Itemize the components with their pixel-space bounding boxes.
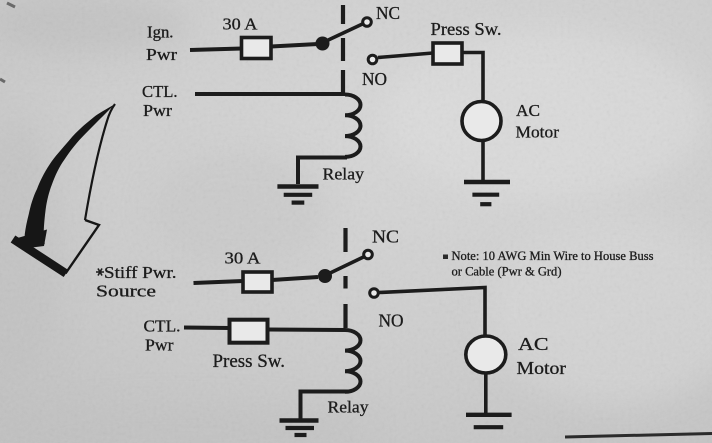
AC motor M1 (top) bbox=[462, 102, 501, 141]
ground symbol (bottom relay coil) bbox=[280, 421, 319, 436]
fuse F2 (30 A, bottom) bbox=[243, 272, 272, 292]
svg-text:Stiff Pwr.: Stiff Pwr. bbox=[104, 263, 177, 282]
svg-text:Pwr: Pwr bbox=[145, 336, 174, 355]
wire: AC motor to ground (bottom) bbox=[484, 373, 488, 417]
relay K1 switch lever (top) bbox=[324, 24, 364, 43]
wire: NO contact to press switch bbox=[378, 53, 433, 58]
label CTL. Pwr (top net) bbox=[142, 82, 178, 120]
svg-text:NO: NO bbox=[379, 311, 404, 331]
wire: relay coil to ground (top) bbox=[298, 158, 347, 185]
svg-text:Press Sw.: Press Sw. bbox=[431, 19, 502, 39]
label AC Motor (top) bbox=[516, 101, 560, 142]
wire: fuse to relay common (bottom) bbox=[272, 277, 318, 280]
fuse F1 (30 A, top) bbox=[242, 38, 272, 59]
wire: CTL. Pwr to press switch (bottom) bbox=[184, 326, 230, 331]
junction: relay common contact (bottom, filled dot) bbox=[318, 269, 332, 283]
wire: fuse to relay common bbox=[271, 44, 318, 47]
relay K2 NO contact terminal (bottom) bbox=[370, 289, 379, 298]
label AC Motor (bottom) bbox=[517, 334, 567, 378]
svg-text:or Cable (Pwr & Grd): or Cable (Pwr & Grd) bbox=[452, 265, 562, 279]
svg-text:Motor: Motor bbox=[516, 123, 560, 142]
svg-text:Relay: Relay bbox=[328, 398, 370, 417]
wire: NO contact to AC motor (bottom) bbox=[379, 288, 485, 338]
wire: CTL. Pwr to relay coil (top) bbox=[195, 92, 345, 96]
label CTL. Pwr (bottom net) bbox=[144, 317, 181, 355]
svg-text:AC: AC bbox=[516, 101, 540, 120]
ground symbol (bottom motor) bbox=[466, 415, 512, 427]
wire: Stiff Pwr. Source to fuse (bottom) bbox=[194, 281, 244, 283]
wire: press switch to relay coil (bottom) bbox=[268, 328, 346, 333]
wire: Ign. Pwr to fuse bbox=[190, 49, 242, 51]
note bullet bbox=[443, 255, 448, 260]
svg-text:NC: NC bbox=[376, 3, 400, 23]
svg-text:30 A: 30 A bbox=[223, 15, 259, 34]
press switch S1 (top) bbox=[433, 43, 462, 64]
wire: relay coil to ground (bottom) bbox=[301, 392, 350, 420]
svg-text:Pwr: Pwr bbox=[143, 101, 172, 120]
relay K1 actuator dashed link (top) bbox=[341, 5, 345, 93]
wire: AC motor to ground (top) bbox=[481, 141, 485, 183]
svg-text:CTL.: CTL. bbox=[144, 317, 181, 336]
note text: 10 AWG Min Wire bbox=[452, 249, 654, 279]
svg-text:Source: Source bbox=[96, 282, 156, 301]
svg-text:Note: 10 AWG Min Wire to Hous: Note: 10 AWG Min Wire to House Buss bbox=[452, 249, 654, 263]
svg-text:Motor: Motor bbox=[517, 358, 567, 378]
svg-text:30 A: 30 A bbox=[225, 249, 262, 268]
wire: press switch to AC motor bbox=[462, 53, 483, 103]
label *Stiff Pwr. Source (net name) bbox=[96, 263, 177, 301]
svg-text:AC: AC bbox=[518, 334, 549, 354]
relay K1 NO contact terminal (top) bbox=[368, 55, 377, 64]
AC motor M2 (bottom) bbox=[466, 336, 506, 373]
svg-text:Pwr: Pwr bbox=[146, 45, 177, 64]
relay K2 coil (bottom) bbox=[345, 330, 361, 392]
press switch S2 (bottom) bbox=[230, 320, 268, 343]
label Ign. Pwr (net name) bbox=[146, 23, 177, 65]
svg-text:NO: NO bbox=[362, 69, 387, 89]
svg-text:Ign.: Ign. bbox=[147, 23, 174, 42]
relay K2 actuator dashed link (bottom) bbox=[343, 228, 347, 328]
ground symbol (top motor) bbox=[464, 182, 510, 204]
relay K2 NC contact terminal (bottom) bbox=[364, 250, 373, 259]
svg-text:Press Sw.: Press Sw. bbox=[213, 351, 286, 372]
junction: relay common contact (top, filled dot) bbox=[316, 37, 330, 51]
relay K2 switch lever (bottom) bbox=[327, 257, 365, 275]
svg-text:Relay: Relay bbox=[323, 165, 365, 184]
scan artifact: corner smudges bbox=[0, 3, 15, 82]
scan artifact: page edge line bottom right bbox=[565, 434, 712, 438]
relay K1 NC contact terminal (top) bbox=[363, 18, 372, 27]
svg-text:NC: NC bbox=[372, 227, 399, 247]
ground symbol (top relay coil) bbox=[277, 187, 318, 203]
annotation arrow (hand-drawn swoosh pointing to Stiff Pwr. Source) bbox=[13, 104, 115, 274]
svg-text:CTL.: CTL. bbox=[142, 82, 178, 101]
relay K1 coil (top) bbox=[345, 95, 361, 157]
